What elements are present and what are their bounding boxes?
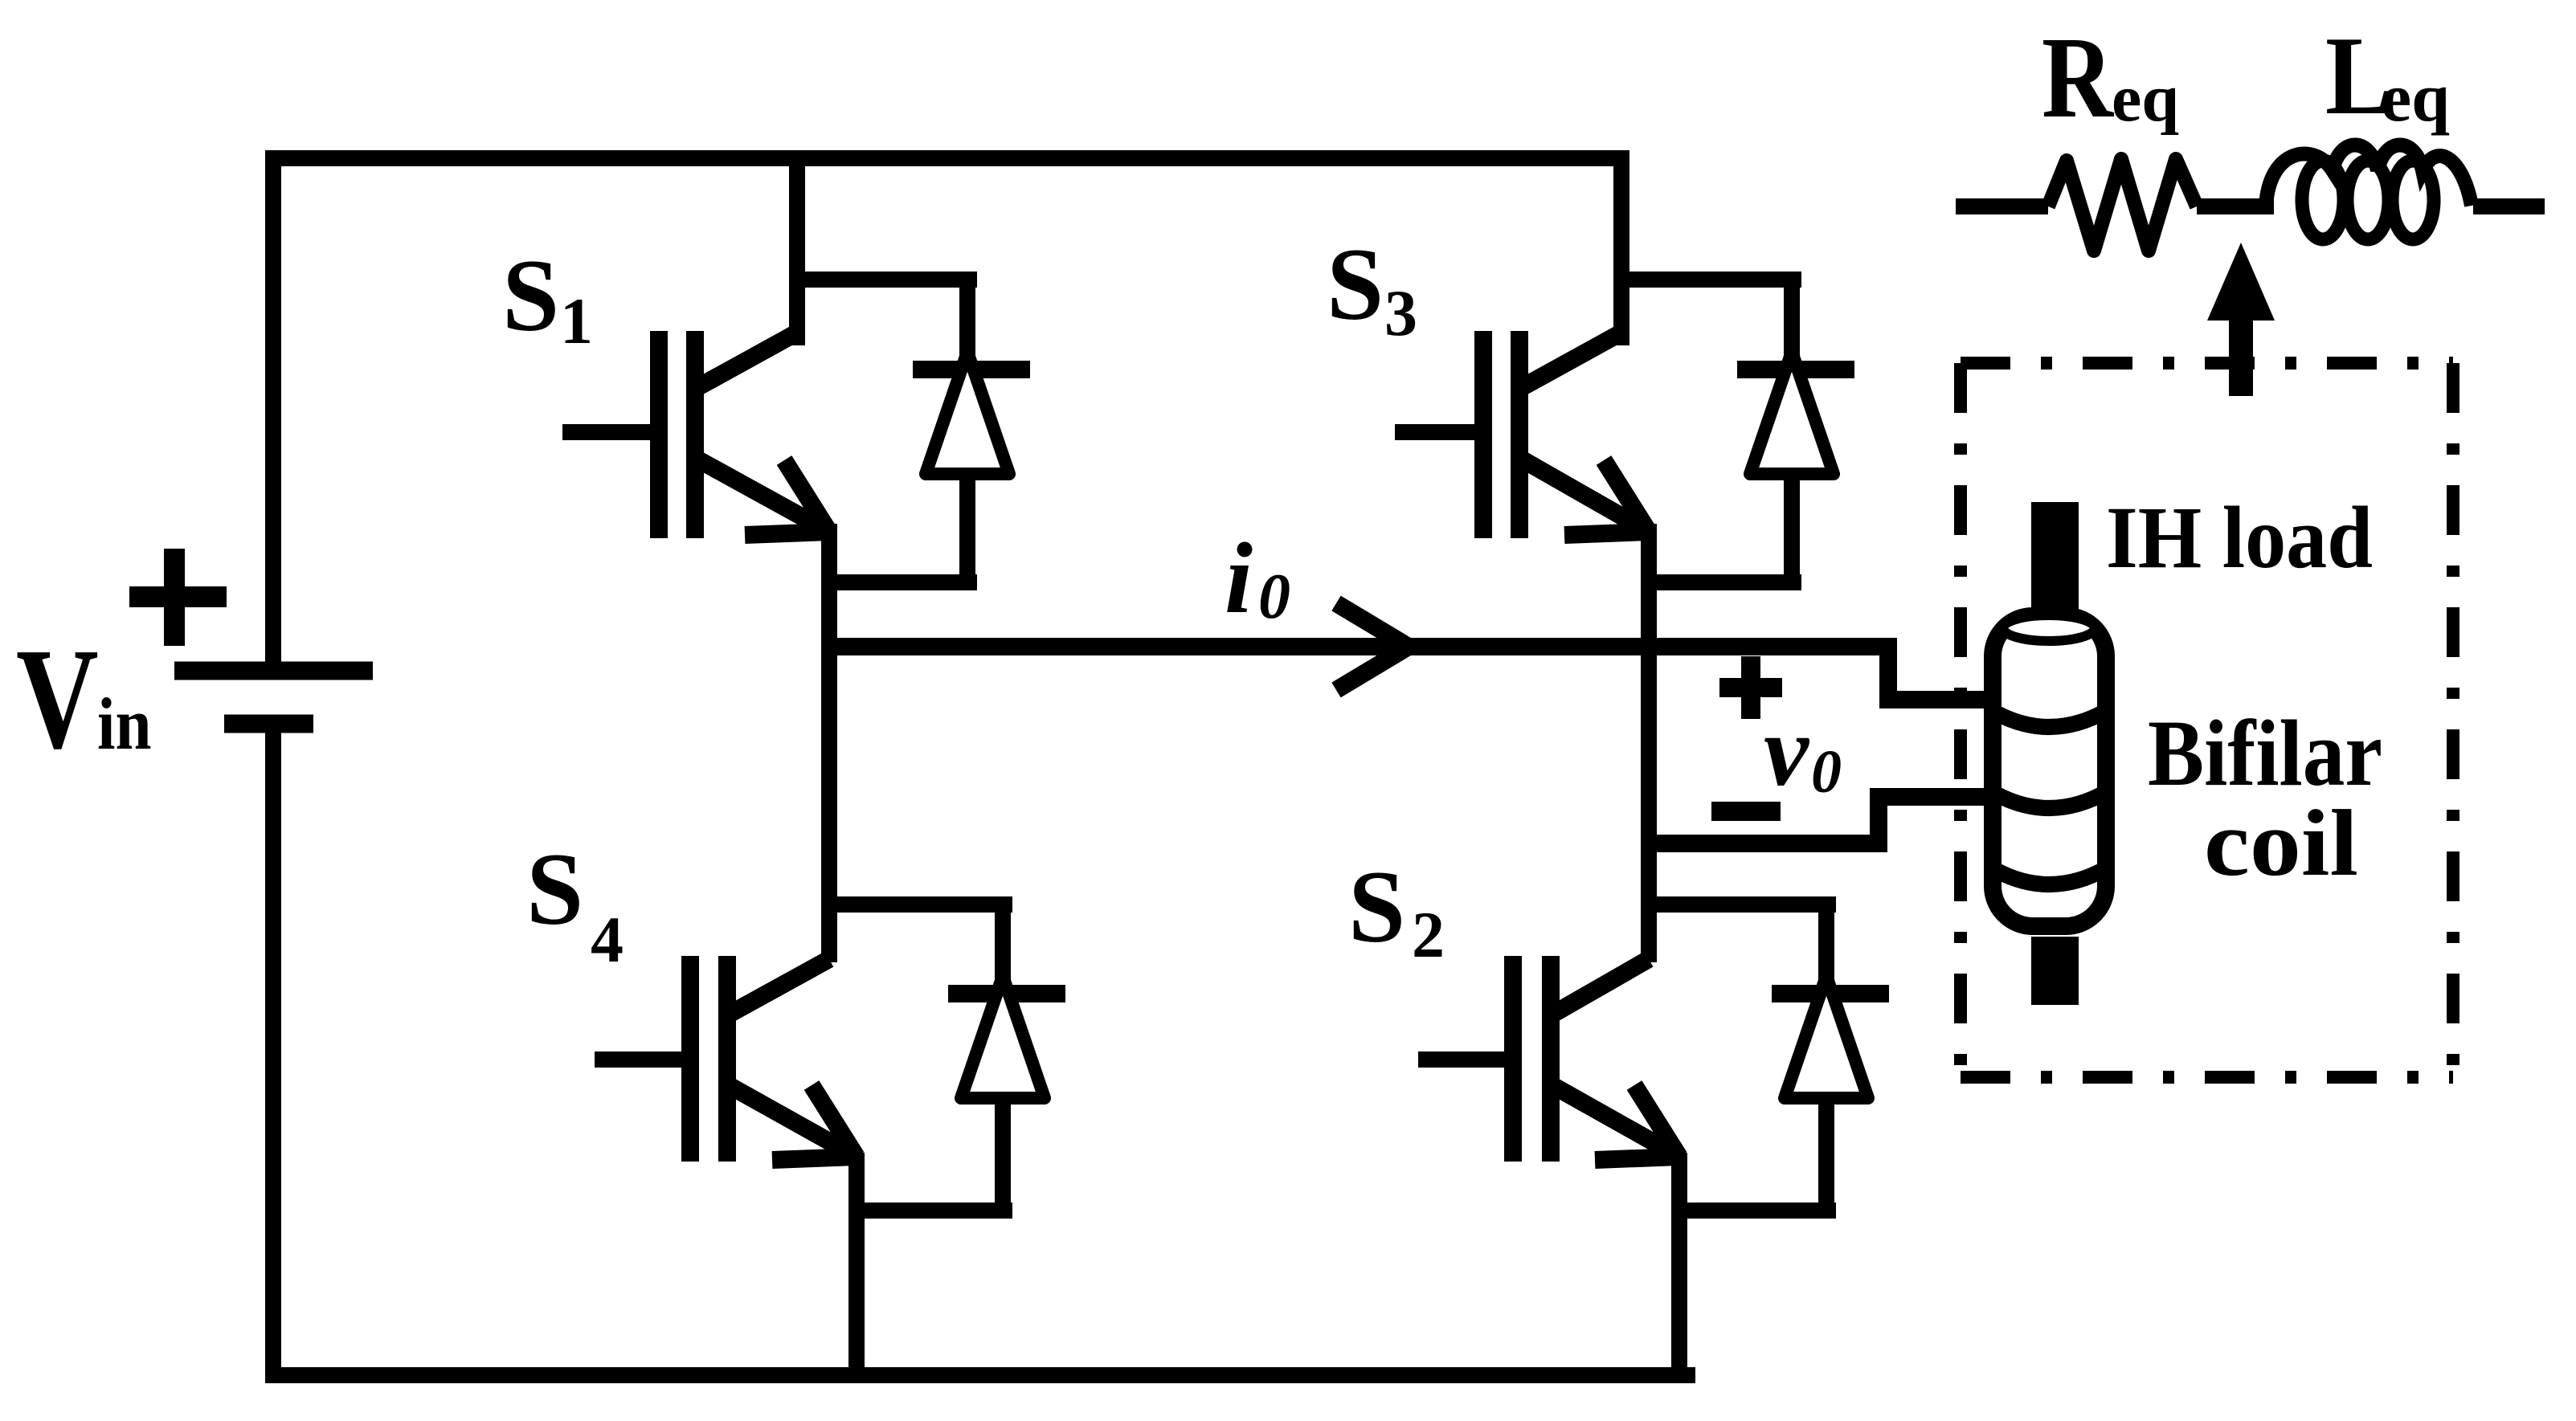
svg-text:v: v xyxy=(1764,696,1810,807)
svg-text:IH load: IH load xyxy=(2106,488,2373,586)
svg-text:0: 0 xyxy=(1258,561,1290,632)
svg-text:1: 1 xyxy=(560,284,593,357)
svg-text:eq: eq xyxy=(2112,61,2179,136)
svg-text:V: V xyxy=(16,619,99,779)
svg-text:S: S xyxy=(502,239,559,353)
svg-text:3: 3 xyxy=(1384,276,1417,349)
svg-text:0: 0 xyxy=(1811,738,1842,806)
svg-text:eq: eq xyxy=(2381,59,2450,136)
svg-text:S: S xyxy=(1327,227,1384,341)
svg-text:in: in xyxy=(97,683,152,765)
svg-text:2: 2 xyxy=(1412,898,1445,971)
svg-text:4: 4 xyxy=(591,903,624,976)
svg-text:coil: coil xyxy=(2204,790,2358,896)
svg-text:R: R xyxy=(2042,14,2115,143)
svg-text:i: i xyxy=(1225,523,1253,635)
svg-text:S: S xyxy=(526,832,583,946)
svg-text:S: S xyxy=(1348,850,1405,964)
